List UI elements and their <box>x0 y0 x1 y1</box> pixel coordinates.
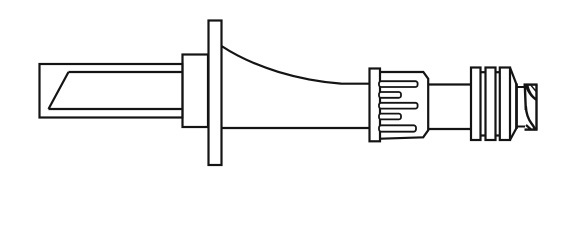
nut slot 1 (long) <box>379 81 418 87</box>
nut slot 5 (long) <box>379 125 416 131</box>
groove 1 top line <box>481 71 486 73</box>
ring 3 <box>500 68 510 141</box>
tip J curve <box>526 106 535 130</box>
luer nut body outline <box>380 72 428 139</box>
tip bottom-left hatch stroke <box>526 125 531 129</box>
spike tube outer rectangle <box>40 64 183 118</box>
spike bevel slant edge <box>49 72 69 109</box>
cylinder between nut and rings, top line <box>428 83 471 85</box>
tip top-left hatch swoosh <box>525 85 537 102</box>
spike bevel top line <box>69 71 183 73</box>
ring 2 <box>486 68 496 141</box>
tip left edge upper part <box>525 85 526 110</box>
cone top chamfer <box>510 68 517 85</box>
tip bottom edge <box>525 128 538 130</box>
groove 2 bottom line <box>496 134 500 136</box>
ring 1 <box>471 68 481 141</box>
tip top-left thin hatch stroke <box>530 85 537 93</box>
body bottom line <box>222 127 371 129</box>
nut slot 3 (long) <box>379 103 418 109</box>
neck top line <box>517 86 526 88</box>
neck bottom line <box>517 126 526 128</box>
cone bottom chamfer <box>510 128 517 140</box>
nut slot 4 (short) <box>379 114 401 120</box>
tip right edge <box>535 85 537 130</box>
cone end vertical edge <box>515 84 518 129</box>
body top curve <box>222 46 370 84</box>
spike bevel bottom line <box>49 108 183 110</box>
cylinder between nut and rings, bottom line <box>428 128 471 130</box>
flange plate <box>209 21 222 166</box>
luer nut ring <box>370 69 381 142</box>
groove 1 bottom line <box>481 134 486 136</box>
nut slot 2 (short) <box>379 92 401 98</box>
tip top edge <box>524 83 538 85</box>
groove 2 top line <box>496 71 500 73</box>
collar at spike base <box>183 55 209 128</box>
